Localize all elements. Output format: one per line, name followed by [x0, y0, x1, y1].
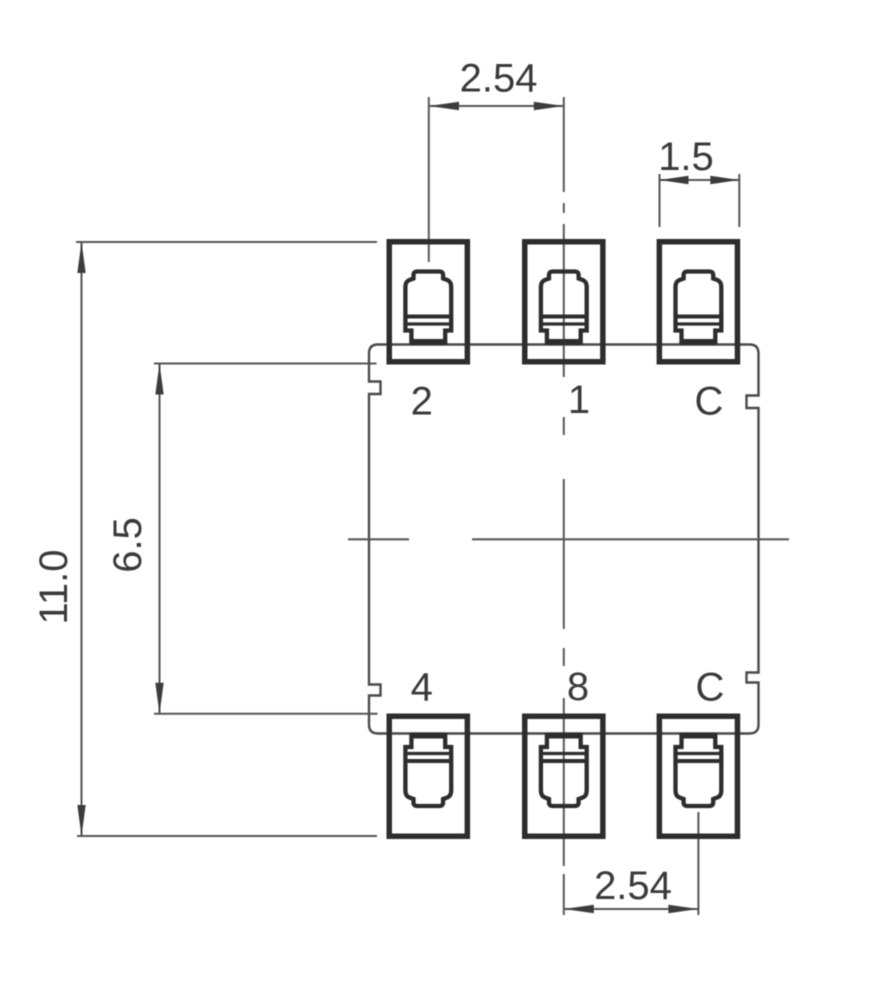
svg-text:11.0: 11.0 [32, 550, 76, 625]
pin 2 center extension line [428, 97, 430, 262]
horizontal centerline [348, 538, 409, 540]
component body outline with side notches [369, 345, 759, 734]
terminal pin C (top right) [659, 242, 737, 362]
svg-text:2.54: 2.54 [594, 864, 672, 908]
svg-text:2: 2 [411, 380, 433, 424]
terminal pin 4 (bottom left) [389, 716, 467, 836]
svg-text:1: 1 [568, 378, 590, 422]
svg-text:C: C [695, 380, 724, 424]
svg-text:8: 8 [567, 665, 589, 709]
svg-text:1.5: 1.5 [658, 135, 714, 179]
dimension 2.54 top [429, 102, 564, 110]
terminal pin 2 (top left) [389, 242, 467, 362]
dimension 2.54 bottom [564, 812, 699, 915]
svg-text:2.54: 2.54 [460, 57, 538, 101]
svg-text:C: C [696, 666, 725, 710]
terminal pin C (bottom right) [659, 716, 737, 836]
svg-text:6.5: 6.5 [106, 517, 150, 573]
dimension 6.5 left inner [154, 364, 378, 714]
terminal pin 1 (top middle) [525, 242, 603, 362]
svg-text:4: 4 [411, 666, 433, 710]
dimension 11.0 left [76, 242, 377, 836]
vertical centerline through pins 1/8 [563, 97, 565, 915]
terminal pin 8 (bottom middle) [525, 716, 603, 836]
dimension 1.5 top right [660, 174, 740, 227]
